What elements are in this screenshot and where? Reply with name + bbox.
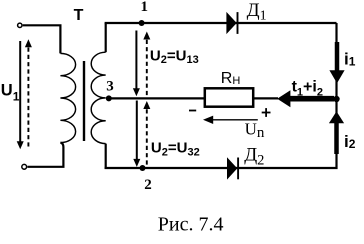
wire: resistor to current arrow [254,97,278,99]
current i1 arrow (down, thick) [329,42,344,83]
svg-text:Рис. 7.4: Рис. 7.4 [158,213,224,235]
wire: secondary bottom lead to bottom rail [105,144,107,169]
diode D1 [227,12,238,34]
wire: node 3 to resistor [109,97,204,99]
voltage Un arrow (left, thin) [203,116,258,124]
node 2 junction dot [140,165,146,171]
transformer core [83,61,85,141]
svg-text:1: 1 [141,0,149,15]
U1 solid arrow (down) [17,41,24,149]
U2=U13 dashed arrow (up) [143,32,150,98]
node A junction dot (right rail / load branch) [333,96,339,102]
svg-text:Un: Un [245,120,265,141]
wire: top terminal to primary winding top [23,25,61,53]
svg-text:T: T [74,7,84,24]
primary top terminal [18,23,22,27]
wire: secondary top lead to top rail [105,23,107,52]
svg-text:U1: U1 [1,82,20,104]
U2=U13 solid arrow (down) [133,31,140,97]
node 3 junction dot [106,95,112,101]
svg-text:t1+i2: t1+i2 [292,78,323,98]
primary bottom terminal [22,164,27,169]
current i2 arrow (up, thick) [329,111,344,154]
svg-text:3: 3 [106,79,114,95]
svg-text:Д2: Д2 [244,144,264,168]
svg-text:Д1: Д1 [247,0,267,23]
node 1 junction dot [139,20,145,26]
svg-text:i1: i1 [344,50,356,69]
wire: top rail [105,22,337,24]
polarity plus sign [262,108,271,117]
polarity minus sign [189,110,196,112]
U2=U32 solid arrow (down) [133,101,140,167]
current t1+i2 arrow (left, thick) [277,90,334,107]
U2=U32 dashed arrow (up) [143,101,150,166]
svg-text:U2=U32: U2=U32 [151,140,200,159]
resistor RH body [205,88,253,106]
U1 dashed arrow (up) [25,39,32,146]
svg-text:2: 2 [144,177,152,193]
svg-text:U2=U13: U2=U13 [150,48,199,67]
transformer T primary winding [60,53,75,142]
transformer T secondary winding [91,52,106,143]
svg-text:RН: RН [221,70,241,87]
diode D2 [228,158,239,180]
svg-text:i2: i2 [344,132,356,151]
wire: primary winding bottom to bottom terminal [27,143,63,167]
wire: right rail [105,23,337,168]
